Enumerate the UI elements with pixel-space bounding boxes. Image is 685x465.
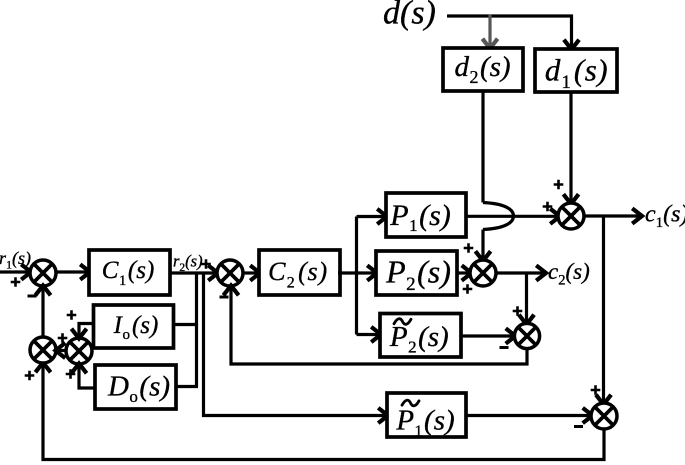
summing junction S7 <box>514 323 539 348</box>
wire junction vertical <box>355 217 358 335</box>
sign + S4 bottom <box>66 369 76 379</box>
summing junction S4 <box>66 338 92 364</box>
wire d2 down to hop <box>481 91 484 203</box>
wire grey drop into d2(s) <box>488 15 491 47</box>
svg-text:d(s): d(s) <box>383 0 436 32</box>
wire S2 to C2 <box>243 271 258 274</box>
wire S3 up to S1 bottom <box>41 288 44 338</box>
wire to P~2 input <box>357 333 380 336</box>
wire S7 feedback to S2 bottom <box>231 288 527 365</box>
svg-text:c1(s): c1(s) <box>645 202 685 232</box>
wire r1 input <box>0 270 29 273</box>
sign + S8 top <box>591 385 601 395</box>
svg-text:P1(s): P1(s) <box>395 405 454 441</box>
wire S8 feedback bottom to S3 <box>43 365 604 460</box>
wire branch down to P~1 <box>204 273 387 416</box>
P~2 tilde <box>394 319 411 325</box>
P~1 tilde <box>402 400 419 406</box>
summing junction S1 <box>30 260 56 286</box>
block C1(s) <box>89 250 170 295</box>
svg-text:d2(s): d2(s) <box>454 51 510 87</box>
block P~1(s) <box>387 393 466 437</box>
summing junction S8 <box>591 403 617 429</box>
svg-text:Io(s): Io(s) <box>113 312 159 343</box>
sign + S4 top <box>67 310 77 320</box>
wire S1 to C1 <box>56 270 88 273</box>
summing junction S2 <box>217 260 243 286</box>
sign - S1 bottom <box>28 295 37 298</box>
sign + S3 right input <box>58 333 68 343</box>
wire hop down into S6 <box>481 230 484 260</box>
sign + S5 top <box>554 180 564 190</box>
sign + S1 left <box>11 277 21 287</box>
summing junction S5 <box>558 203 584 229</box>
wire d(s) to d1(s) top <box>447 16 572 48</box>
block Io(s) <box>94 305 174 348</box>
block P~2(s) <box>380 314 461 358</box>
wire C2 to P2 <box>338 271 375 274</box>
wire S6 to c2 <box>496 271 544 274</box>
wire P1 output to S5 <box>466 215 558 218</box>
block d1(s) <box>535 49 617 92</box>
block P1(s) <box>386 193 466 237</box>
wire d1 down into S5 <box>569 92 572 202</box>
wire hop over P1 output <box>483 203 514 230</box>
sign + S2 left <box>201 259 211 269</box>
svg-text:P2(s): P2(s) <box>389 321 449 357</box>
wire c2 branch down to S7 <box>525 273 528 323</box>
wire Io right link <box>174 323 197 326</box>
sign - S7 left <box>500 346 509 349</box>
wire P2 output to S6 <box>457 271 470 274</box>
wire P~1 output to S8 <box>466 414 591 417</box>
sign - S2 bottom <box>220 296 229 299</box>
sign + S6 top <box>464 243 474 253</box>
wire c1 branch down to S8 <box>602 216 605 403</box>
wire Do left into S4 bottom <box>79 366 95 389</box>
sign + S5 left <box>543 202 553 212</box>
wire P~2 output to S7 <box>461 334 514 337</box>
sign + S7 top <box>513 306 523 316</box>
summing junction S3 <box>30 337 56 363</box>
block d2(s) <box>443 48 523 91</box>
wire Io left into S4 top <box>79 324 94 337</box>
wire branch down to Io/Do <box>195 273 198 387</box>
svg-text:P2(s): P2(s) <box>385 254 451 296</box>
block P2(s) <box>376 251 457 295</box>
wire to P1 input <box>357 215 386 218</box>
svg-text:P1(s): P1(s) <box>389 199 450 235</box>
wire S5 to c1 <box>584 214 640 217</box>
svg-text:d1(s): d1(s) <box>545 53 608 94</box>
svg-text:r1(s): r1(s) <box>0 248 31 272</box>
wire S4 to S3 <box>58 349 66 352</box>
block Do(s) <box>95 365 176 409</box>
block C2(s) <box>259 250 340 295</box>
sign + S6 left <box>463 284 473 294</box>
summing junction S6 <box>470 260 496 286</box>
sign - S8 left <box>574 425 583 428</box>
wire C1 to S2 <box>170 271 216 274</box>
wire Do right link <box>177 385 198 388</box>
sign + S3 bottom <box>25 371 35 381</box>
svg-text:Do(s): Do(s) <box>107 371 170 407</box>
